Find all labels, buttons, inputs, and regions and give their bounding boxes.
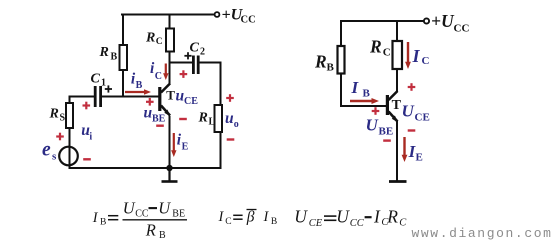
svg-text:R: R: [145, 30, 155, 45]
svg-text:S: S: [60, 113, 66, 124]
svg-text:T: T: [166, 87, 175, 102]
plus e_s: [56, 133, 64, 141]
signal source e_s circle: [59, 147, 78, 166]
svg-text:C: C: [190, 41, 200, 56]
svg-text:R: R: [369, 36, 382, 56]
svg-text:e: e: [42, 140, 51, 161]
wire top rail right circuit: [341, 20, 424, 22]
svg-text:CC: CC: [454, 23, 470, 35]
wire emitter vertical (right): [396, 122, 398, 180]
svg-text:β: β: [246, 209, 255, 226]
svg-text:I: I: [412, 46, 421, 66]
svg-text:+U: +U: [431, 11, 455, 31]
svg-text:s: s: [52, 151, 57, 163]
svg-text:B: B: [363, 88, 371, 100]
junction dot at emitter/ground node: [166, 165, 172, 171]
svg-text:CC: CC: [350, 218, 365, 229]
current arrow i_B: [125, 89, 151, 94]
svg-text:L: L: [209, 117, 216, 128]
svg-text:R: R: [198, 111, 208, 126]
wire C1 left lead: [70, 96, 95, 98]
transistor T2 emitter lead: [389, 112, 398, 122]
svg-text:B: B: [136, 80, 143, 91]
plus U_CE (right): [408, 83, 416, 91]
svg-text:U: U: [336, 207, 350, 227]
C2 polarity plus (black): [184, 52, 191, 59]
wire C2 left lead: [170, 62, 193, 64]
capacitor C1 plates: [95, 86, 100, 107]
wire R_B branch (right) lower and base wire: [341, 74, 386, 107]
wire R_B branch upper: [122, 15, 124, 46]
svg-text:CE: CE: [184, 96, 198, 107]
svg-text:T: T: [392, 98, 402, 113]
svg-text:U: U: [158, 199, 171, 218]
wire C2 right lead and output branch down: [200, 63, 221, 106]
current arrow I_E (right): [402, 137, 408, 162]
svg-text:U: U: [402, 102, 415, 121]
svg-text:C: C: [156, 37, 163, 47]
transistor T2 collector lead: [389, 91, 398, 100]
plus u_BE: [146, 98, 154, 106]
transistor T1 base bar: [158, 87, 161, 111]
svg-text:R: R: [99, 45, 109, 60]
resistor R_S: [66, 103, 73, 128]
wire R_C top lead: [169, 15, 171, 29]
terminal +Ucc right: [424, 18, 429, 23]
svg-text:B: B: [111, 52, 118, 63]
svg-text:CE: CE: [309, 218, 323, 229]
ground (right) bar: [389, 180, 407, 183]
wire bottom rail: [70, 167, 221, 169]
svg-text:C: C: [422, 55, 430, 67]
svg-text:U: U: [366, 116, 379, 135]
svg-text:B: B: [327, 62, 335, 74]
svg-text:C: C: [399, 217, 407, 228]
current arrow i_E: [171, 133, 176, 157]
minus e_s: [83, 158, 91, 160]
svg-text:U: U: [294, 207, 308, 227]
transistor T1 emitter lead: [161, 106, 170, 116]
svg-text:C: C: [91, 72, 101, 87]
plus u_CE: [180, 70, 188, 78]
terminal +Ucc left: [215, 12, 220, 17]
minus u_o: [227, 138, 235, 140]
wire R_B branch (right) upper: [340, 21, 342, 46]
svg-text:C: C: [383, 47, 391, 59]
current arrow I_B (right): [350, 98, 379, 104]
current arrow I_C (right): [405, 42, 411, 69]
wire base from C1 to transistor: [102, 96, 159, 98]
svg-text:B: B: [271, 217, 277, 227]
formula I_B = (U_CC - U_BE)/R_B: [92, 199, 187, 241]
svg-text:2: 2: [200, 47, 205, 58]
svg-text:CC: CC: [241, 14, 256, 25]
svg-text:R: R: [145, 221, 156, 240]
resistor R_B (left): [120, 45, 128, 70]
capacitor C2 plates: [193, 56, 198, 75]
svg-text:CE: CE: [415, 112, 430, 124]
plus u_i: [83, 102, 91, 110]
wire R_C (right) top lead: [396, 21, 398, 41]
formula U_CE = U_CC - I_C R_C: [294, 207, 407, 229]
minus u_BE: [156, 124, 164, 126]
svg-text:E: E: [416, 151, 423, 163]
wire emitter vertical: [169, 117, 171, 168]
wire collector vertical: [169, 52, 171, 85]
ground bar: [162, 180, 178, 183]
wire top rail left circuit: [122, 14, 215, 16]
wire R_S to source: [69, 128, 71, 168]
ground (right) stub: [396, 180, 398, 181]
svg-text:E: E: [182, 141, 189, 152]
svg-text:BE: BE: [379, 126, 394, 138]
svg-text:B: B: [159, 230, 166, 241]
resistor R_L: [215, 105, 223, 132]
svg-text:BE: BE: [172, 209, 185, 220]
svg-text:C: C: [155, 71, 162, 82]
formula I_C = beta-bar I_B: [218, 209, 278, 227]
wire collector vertical (right): [396, 69, 398, 91]
svg-text:I: I: [373, 207, 381, 227]
resistor R_C (right): [393, 41, 403, 69]
svg-text:1: 1: [101, 78, 106, 89]
transistor T2 emitter arrowhead: [392, 116, 398, 123]
svg-text:i: i: [89, 131, 92, 142]
svg-text:CC: CC: [135, 209, 149, 220]
transistor T1 collector lead: [161, 84, 170, 93]
ground stub: [168, 168, 170, 181]
plus u_o: [226, 94, 234, 102]
svg-text:o: o: [234, 119, 239, 130]
transistor T1 emitter arrowhead: [164, 110, 170, 117]
plus U_BE (right): [372, 107, 380, 115]
svg-text:C: C: [225, 217, 231, 227]
svg-text:R: R: [386, 207, 398, 227]
svg-text:u: u: [225, 110, 234, 127]
minus U_CE (right): [408, 129, 416, 131]
transistor T2 base bar: [386, 95, 389, 115]
current arrow i_C: [163, 64, 168, 81]
minus U_BE (right): [383, 139, 391, 141]
resistor R_C (left): [166, 29, 174, 52]
wire R_S upper stub: [69, 97, 71, 104]
svg-text:R: R: [49, 107, 59, 122]
wire R_B branch lower: [122, 70, 124, 97]
resistor R_B (right): [338, 46, 345, 74]
svg-text:BE: BE: [152, 114, 166, 125]
svg-text:R: R: [314, 51, 327, 71]
svg-text:U: U: [123, 199, 136, 218]
C1 polarity plus (black): [105, 85, 112, 92]
svg-text:www.diangon.com: www.diangon.com: [412, 226, 553, 241]
wire R_L bottom lead: [220, 132, 222, 168]
minus u_CE: [179, 118, 187, 120]
svg-text:B: B: [100, 217, 106, 227]
